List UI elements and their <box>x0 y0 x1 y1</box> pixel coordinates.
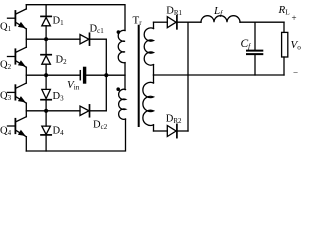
svg-text:DR2: DR2 <box>166 114 182 126</box>
wire bottom rail <box>26 119 125 151</box>
transformer secondary upper winding <box>144 22 153 75</box>
diode DR2 <box>167 124 188 137</box>
transformer core <box>138 26 140 126</box>
diode D4 <box>41 126 51 151</box>
transistor Q4 <box>8 117 27 137</box>
wire Q2 emitter to Q3 collector <box>25 67 27 83</box>
node D1/D2 junction <box>44 37 48 41</box>
wire output return (centre tap to load) <box>154 74 285 76</box>
wire clamp bottom (Q3/Q4 node to Dc2) <box>26 110 80 112</box>
source Vin <box>80 68 84 82</box>
inductor Lf <box>201 16 240 23</box>
svg-text:Dc1: Dc1 <box>90 24 105 36</box>
wire clamp bus <box>105 39 107 111</box>
svg-text:D1: D1 <box>53 15 65 27</box>
transformer T_r primary upper winding <box>118 30 125 62</box>
transistor Q3 <box>8 83 27 103</box>
node D3/D4 junction <box>44 109 48 113</box>
diode D1 <box>41 5 51 55</box>
wire Lf to load <box>240 21 284 23</box>
wire rectifier bus <box>187 22 189 131</box>
diode Dc2 <box>80 105 106 117</box>
wire top rail <box>26 5 125 31</box>
wire Vin to primary centre <box>86 74 125 76</box>
svg-text:Tr: Tr <box>133 14 143 27</box>
svg-text:DR1: DR1 <box>166 6 182 18</box>
svg-text:D3: D3 <box>53 91 65 103</box>
svg-text:RL: RL <box>278 4 291 16</box>
transistor Q2 <box>8 47 27 67</box>
svg-text:Lf: Lf <box>213 5 223 17</box>
wire secondary top to DR1 <box>154 21 168 23</box>
svg-text:−: − <box>293 68 298 78</box>
svg-text:Vin: Vin <box>67 79 80 92</box>
svg-text:+: + <box>292 13 297 23</box>
node primary dot upper <box>117 30 121 34</box>
svg-text:Q4: Q4 <box>0 126 12 138</box>
diode D2 <box>41 55 51 90</box>
diode Dc1 <box>80 33 106 45</box>
wire Q1 emitter to Q2 collector <box>25 29 27 47</box>
transformer secondary lower winding <box>143 75 154 131</box>
capacitor Cf <box>247 22 262 75</box>
svg-text:Vo: Vo <box>291 39 302 52</box>
wire Q4 emitter to bottom rail <box>25 137 27 151</box>
node clamp bus / mid junction <box>104 73 108 77</box>
node D2/D3 junction <box>44 73 48 77</box>
wire mid (Q2/Q3 node to Vin source) <box>26 74 79 76</box>
svg-text:Cf: Cf <box>241 38 252 51</box>
diode D3 <box>41 89 51 126</box>
svg-text:Q1: Q1 <box>0 22 12 34</box>
svg-text:D2: D2 <box>56 54 68 66</box>
transistor Q1 <box>8 5 27 29</box>
wire Q3 emitter to Q4 collector <box>25 103 27 117</box>
svg-text:D4: D4 <box>53 126 65 138</box>
node primary dot lower <box>116 87 120 91</box>
wire secondary bottom to DR2 <box>154 130 168 132</box>
resistor RL <box>282 22 288 75</box>
svg-text:Dc2: Dc2 <box>93 120 108 132</box>
transformer T_r primary lower winding <box>119 89 126 119</box>
wire clamp top (Q1/Q2 node to Dc1) <box>26 38 80 40</box>
wire primary centre link <box>124 63 126 90</box>
diode DR1 <box>167 16 201 29</box>
svg-text:Q2: Q2 <box>0 60 12 72</box>
